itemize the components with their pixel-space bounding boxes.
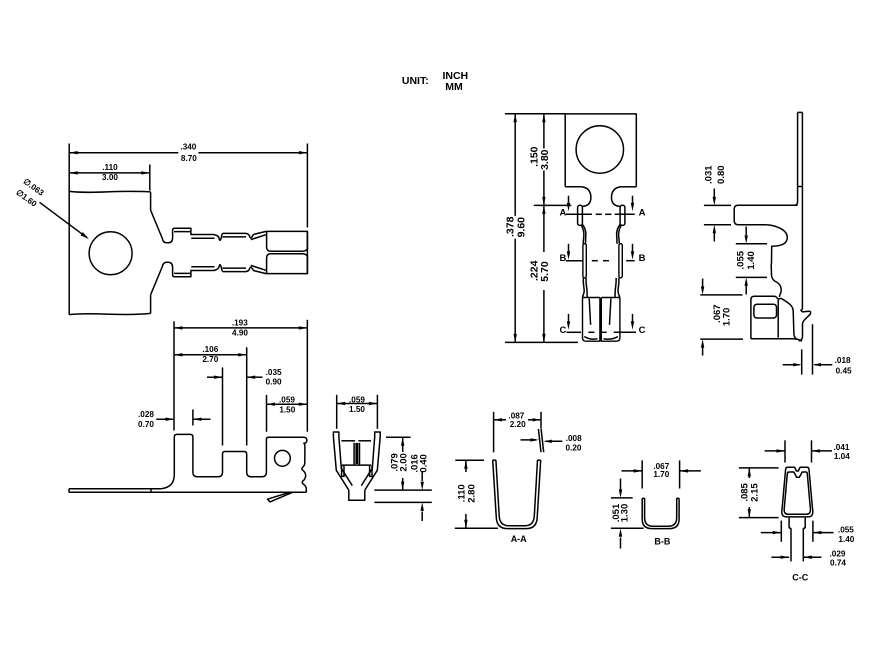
svg-text:UNIT:: UNIT: [402,75,429,87]
svg-text:.059: .059 [349,396,365,405]
svg-text:1.70: 1.70 [722,308,733,327]
svg-text:9.60: 9.60 [515,217,527,238]
view3 inner folds [341,440,355,442]
svg-text:0.90: 0.90 [266,377,282,386]
side view bottom edge [751,339,802,342]
svg-text:5.70: 5.70 [539,261,551,282]
svg-text:.340: .340 [180,142,196,151]
svg-text:.029: .029 [830,549,846,558]
view1 terminal outline top [151,210,266,243]
svg-text:C: C [559,325,566,336]
front view tab [565,114,636,187]
front view prongs [583,298,600,342]
front view ears [582,187,591,207]
svg-text:2.20: 2.20 [510,420,526,429]
view2 wings and box outline [161,434,307,492]
svg-text:.008: .008 [566,434,582,443]
svg-text:2.15: 2.15 [750,483,761,502]
dim .067/1.70 [641,460,643,488]
svg-text:0.45: 0.45 [836,366,852,375]
svg-text:.059: .059 [279,396,295,405]
label B-B [654,536,670,546]
side view barrel window [754,304,777,318]
svg-text:A-A: A-A [511,534,527,544]
dim .087/2.20 [493,412,495,453]
dim .018/0.45 [801,349,803,374]
svg-text:.193: .193 [232,318,248,327]
dim .378/9.60 [505,113,565,115]
dim .059/1.50 view3 [336,395,338,429]
dim .085/2.15 [739,467,779,469]
view2 base strip [69,491,306,493]
section line C-C [567,331,582,333]
svg-text:B: B [559,253,566,264]
svg-text:.087: .087 [508,411,524,420]
view3 wall notches [342,465,344,476]
dim .041/1.04 [784,440,786,462]
view1 terminal hole [89,232,132,275]
dim .055/1.40 side [736,243,767,245]
side view bump and edge [766,225,787,297]
svg-text:0.74: 0.74 [830,559,846,568]
svg-text:.055: .055 [838,525,854,534]
label C-C [792,572,808,582]
svg-text:4.90: 4.90 [232,329,248,338]
svg-text:0.80: 0.80 [716,165,727,184]
svg-text:.035: .035 [266,368,282,377]
svg-text:1.30: 1.30 [619,504,630,523]
svg-text:1.40: 1.40 [746,251,757,270]
svg-text:0.40: 0.40 [418,454,429,473]
leader dia .063/1.60 [40,202,88,238]
view3 pedestal [349,490,365,500]
svg-text:.055: .055 [736,250,747,269]
front view body edges lower [583,278,585,298]
section line A-A [566,213,592,215]
dim .106/2.70 [246,347,248,445]
svg-text:0.70: 0.70 [138,420,154,429]
svg-text:A: A [559,207,566,218]
svg-text:1.70: 1.70 [653,470,669,479]
dim .110/2.80 [455,459,484,461]
view1 contact box top [267,231,308,251]
dim .067/1.70 side [700,294,742,296]
dim .028/0.70 [192,410,194,426]
svg-text:.031: .031 [703,165,714,184]
svg-text:A: A [639,207,646,218]
svg-text:2.00: 2.00 [398,453,409,472]
dim .110/3.00 [149,165,151,191]
svg-text:1.40: 1.40 [838,535,854,544]
svg-text:MM: MM [445,81,463,93]
section line B-B [566,260,583,262]
view2 bent tab [268,492,293,502]
side view bent flap [777,297,797,338]
svg-text:8.70: 8.70 [181,154,197,163]
view2 carrier tick [150,489,152,493]
side view barrel right edge [777,300,779,338]
dim .029/0.74 [771,556,789,558]
side view blade [794,112,798,205]
svg-text:C: C [639,325,646,336]
front view hole [576,126,623,173]
front view B capsules [583,244,586,278]
sectionCC neck and stem [788,518,790,529]
svg-text:1.04: 1.04 [834,452,850,461]
view3 crimp section outline [333,437,348,490]
dim .079/2.00 [386,436,411,438]
svg-text:3.00: 3.00 [102,173,118,182]
svg-text:B-B: B-B [654,536,670,546]
dim .031/0.80 [704,204,731,206]
side view barrel box [751,296,777,339]
section arrows and letters [568,196,570,203]
sectionCC outline outer [782,467,813,517]
svg-text:.018: .018 [835,356,851,365]
view1 terminal outline bottom (mirror) [151,262,266,295]
sectionAA U shape [493,460,541,528]
svg-text:B: B [639,253,646,264]
label A-A [511,534,527,544]
dim .035/0.90 [222,368,224,446]
svg-text:.106: .106 [202,345,218,354]
view1 box right edge [306,231,308,273]
svg-text:0.20: 0.20 [566,444,582,453]
view2 hole [275,450,291,466]
side view lance finger [799,309,811,341]
svg-text:C-C: C-C [792,572,808,582]
front view neck capsules [578,205,583,225]
dim .008/0.20 [538,429,541,452]
dim .150/3.80 [534,204,572,206]
svg-text:1.50: 1.50 [279,405,295,414]
dim .059/1.50 view2 [266,395,268,432]
svg-text:2.80: 2.80 [467,484,478,503]
svg-text:.028: .028 [138,410,154,419]
dim .055/1.40 CC [780,521,782,542]
view1 carrier strip [68,144,70,315]
dim .224/5.70 [543,205,545,252]
svg-text:INCH: INCH [442,70,468,82]
view1 inner fold lines [174,231,191,233]
dim .051/1.30 [611,497,633,499]
svg-text:2.70: 2.70 [202,355,218,364]
title UNIT: INCH MM [402,70,468,93]
sectionBB U shape [642,498,679,528]
side view arm [734,205,797,225]
front view body edges upper [581,225,584,244]
view1 contact box bottom [267,254,308,274]
dim .193/4.90 [173,321,175,430]
svg-text:1.50: 1.50 [349,405,365,414]
svg-text:3.80: 3.80 [539,149,551,170]
svg-text:.041: .041 [834,443,850,452]
dim .340/8.70 [306,144,308,228]
svg-text:.110: .110 [102,163,118,172]
sectionCC outline inner [784,472,810,514]
dim .016/0.40 [374,489,431,491]
